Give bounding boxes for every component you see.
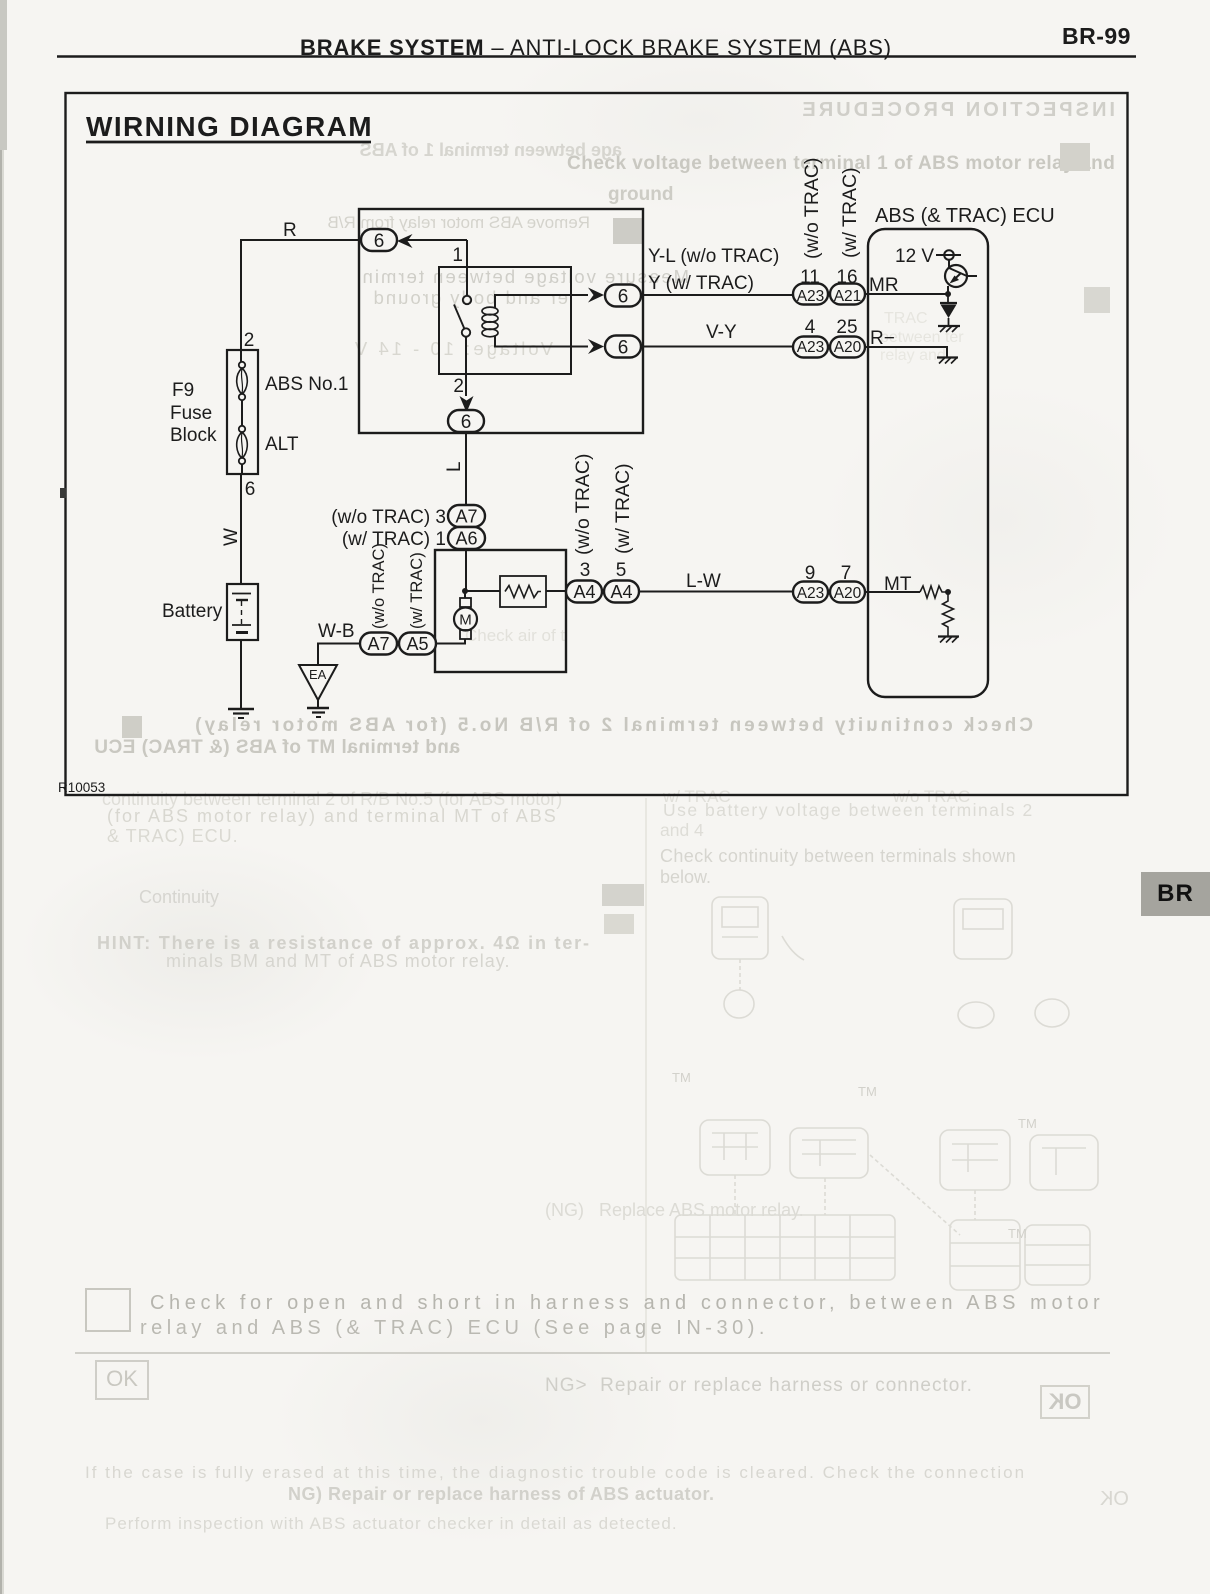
svg-text:6: 6 bbox=[618, 287, 629, 308]
svg-text:WIRNING DIAGRAM: WIRNING DIAGRAM bbox=[86, 111, 373, 142]
svg-text:(w/o TRAC) 3: (w/o TRAC) 3 bbox=[331, 507, 446, 528]
svg-text:MR: MR bbox=[869, 275, 899, 296]
svg-text:Y-L (w/o TRAC): Y-L (w/o TRAC) bbox=[648, 246, 779, 267]
svg-text:L: L bbox=[444, 461, 465, 472]
svg-text:F9: F9 bbox=[172, 380, 194, 401]
svg-text:R−: R− bbox=[870, 328, 895, 349]
svg-text:A6: A6 bbox=[455, 529, 477, 549]
svg-text:V-Y: V-Y bbox=[706, 322, 737, 343]
svg-text:(w/ TRAC): (w/ TRAC) bbox=[839, 167, 861, 258]
svg-text:A23: A23 bbox=[797, 339, 825, 356]
svg-text:7: 7 bbox=[841, 563, 852, 584]
svg-text:ALT: ALT bbox=[265, 434, 299, 455]
svg-text:A21: A21 bbox=[834, 288, 862, 305]
svg-text:M: M bbox=[459, 612, 472, 629]
svg-text:Block: Block bbox=[170, 425, 217, 446]
svg-text:6: 6 bbox=[374, 231, 385, 252]
svg-text:6: 6 bbox=[245, 479, 256, 500]
svg-text:2: 2 bbox=[244, 330, 255, 351]
svg-text:A23: A23 bbox=[797, 288, 825, 305]
svg-text:(w/ TRAC): (w/ TRAC) bbox=[408, 552, 426, 629]
svg-text:6: 6 bbox=[461, 412, 472, 433]
svg-text:(w/ TRAC) 1: (w/ TRAC) 1 bbox=[342, 529, 446, 550]
svg-text:6: 6 bbox=[618, 338, 629, 359]
svg-text:W: W bbox=[221, 528, 242, 546]
svg-text:25: 25 bbox=[836, 317, 857, 338]
svg-text:A4: A4 bbox=[610, 582, 632, 602]
svg-text:A7: A7 bbox=[367, 634, 389, 654]
svg-text:A23: A23 bbox=[797, 585, 825, 602]
svg-text:W-B: W-B bbox=[318, 621, 355, 642]
svg-text:MT: MT bbox=[884, 574, 912, 595]
svg-text:A7: A7 bbox=[455, 507, 477, 527]
svg-text:A5: A5 bbox=[406, 634, 428, 654]
svg-text:R10053: R10053 bbox=[58, 780, 105, 795]
svg-text:1: 1 bbox=[452, 245, 463, 266]
svg-text:3: 3 bbox=[580, 560, 591, 581]
svg-text:Y (w/ TRAC): Y (w/ TRAC) bbox=[648, 273, 754, 294]
svg-text:(w/o TRAC): (w/o TRAC) bbox=[370, 543, 388, 629]
svg-text:ABS (& TRAC) ECU: ABS (& TRAC) ECU bbox=[875, 205, 1055, 227]
svg-text:(w/ TRAC): (w/ TRAC) bbox=[612, 463, 634, 554]
svg-text:9: 9 bbox=[805, 563, 816, 584]
svg-text:12 V: 12 V bbox=[895, 246, 934, 267]
svg-text:A20: A20 bbox=[834, 585, 862, 602]
svg-text:5: 5 bbox=[616, 560, 627, 581]
svg-text:4: 4 bbox=[805, 317, 816, 338]
svg-text:L-W: L-W bbox=[686, 571, 721, 592]
svg-text:(w/o TRAC): (w/o TRAC) bbox=[801, 158, 823, 259]
svg-text:Battery: Battery bbox=[162, 601, 223, 622]
svg-text:A4: A4 bbox=[573, 582, 595, 602]
svg-text:(w/o TRAC): (w/o TRAC) bbox=[572, 454, 594, 555]
svg-text:2: 2 bbox=[453, 376, 464, 397]
svg-text:ABS No.1: ABS No.1 bbox=[265, 374, 348, 395]
svg-text:A20: A20 bbox=[834, 339, 862, 356]
svg-text:11: 11 bbox=[800, 267, 820, 288]
svg-text:16: 16 bbox=[836, 267, 857, 288]
svg-text:Fuse: Fuse bbox=[170, 403, 212, 424]
svg-text:EA: EA bbox=[309, 667, 327, 682]
svg-text:R: R bbox=[283, 220, 297, 241]
